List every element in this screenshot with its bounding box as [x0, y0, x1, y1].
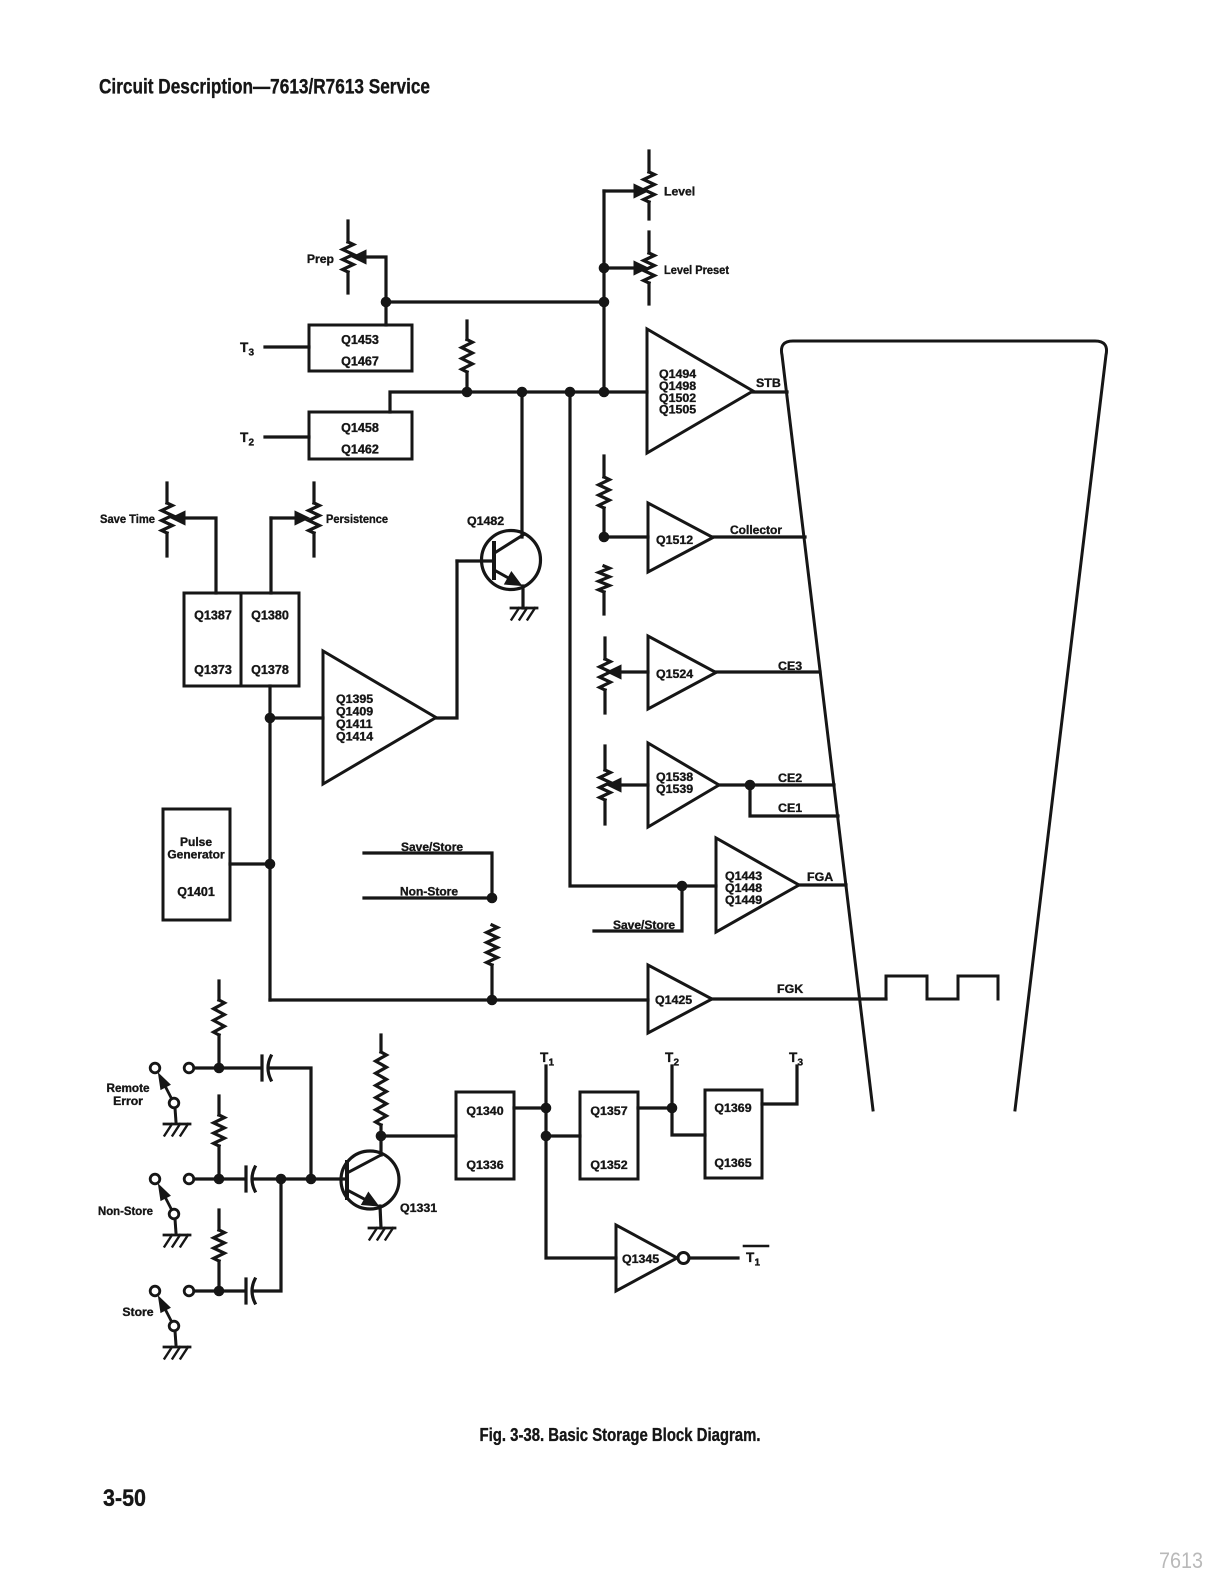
svg-text:Q1453: Q1453 — [341, 333, 379, 347]
svg-text:Circuit Description—7613/R7613: Circuit Description—7613/R7613 Service — [99, 76, 430, 99]
svg-text:Q1482: Q1482 — [467, 514, 504, 528]
svg-text:Generator: Generator — [167, 848, 225, 862]
svg-text:Q1369: Q1369 — [714, 1101, 751, 1115]
svg-text:Fig. 3-38. Basic Storage Bloc: Fig. 3-38. Basic Storage Block Diagram. — [480, 1425, 761, 1445]
svg-text:Q1365: Q1365 — [714, 1156, 751, 1170]
svg-text:Level: Level — [664, 185, 695, 199]
svg-text:3: 3 — [249, 348, 255, 359]
svg-text:Q1449: Q1449 — [725, 893, 762, 907]
svg-text:Non-Store: Non-Store — [98, 1204, 153, 1218]
svg-text:7613: 7613 — [1159, 1548, 1203, 1573]
svg-text:Q1467: Q1467 — [341, 355, 379, 369]
svg-text:Q1512: Q1512 — [656, 533, 693, 547]
svg-text:2: 2 — [674, 1058, 680, 1069]
svg-text:2: 2 — [249, 438, 255, 449]
svg-text:Q1524: Q1524 — [656, 667, 693, 681]
svg-text:Q1505: Q1505 — [659, 403, 696, 417]
svg-text:Q1336: Q1336 — [466, 1158, 503, 1172]
svg-text:CE2: CE2 — [778, 771, 802, 785]
svg-text:Q1357: Q1357 — [590, 1104, 627, 1118]
svg-text:Prep: Prep — [307, 252, 334, 266]
svg-text:Q1331: Q1331 — [400, 1201, 437, 1215]
svg-text:Q1458: Q1458 — [341, 421, 379, 435]
svg-text:Store: Store — [122, 1305, 153, 1319]
svg-text:Save Time: Save Time — [100, 512, 155, 526]
svg-text:Q1378: Q1378 — [251, 663, 289, 677]
svg-text:Collector: Collector — [730, 523, 782, 537]
svg-text:Q1539: Q1539 — [656, 782, 693, 796]
svg-text:Q1401: Q1401 — [177, 885, 215, 899]
svg-text:Q1414: Q1414 — [336, 730, 373, 744]
svg-text:1: 1 — [755, 1258, 761, 1269]
svg-text:CE3: CE3 — [778, 659, 802, 673]
svg-text:Save/Store: Save/Store — [613, 918, 675, 932]
svg-text:Q1425: Q1425 — [655, 993, 692, 1007]
svg-text:3: 3 — [798, 1058, 804, 1069]
svg-text:1: 1 — [549, 1058, 555, 1069]
svg-text:FGA: FGA — [807, 870, 833, 884]
svg-text:Q1462: Q1462 — [341, 443, 379, 457]
svg-text:Q1340: Q1340 — [466, 1104, 503, 1118]
svg-text:STB: STB — [756, 376, 781, 390]
svg-text:Level Preset: Level Preset — [664, 263, 729, 277]
svg-text:3-50: 3-50 — [103, 1485, 146, 1512]
svg-text:Q1380: Q1380 — [251, 609, 289, 623]
svg-text:Q1345: Q1345 — [622, 1252, 659, 1266]
svg-text:Error: Error — [113, 1094, 143, 1108]
svg-text:CE1: CE1 — [778, 801, 802, 815]
svg-text:FGK: FGK — [777, 982, 803, 996]
svg-text:Q1352: Q1352 — [590, 1158, 627, 1172]
svg-text:Q1387: Q1387 — [194, 609, 232, 623]
svg-text:Remote: Remote — [107, 1081, 150, 1095]
svg-text:Q1373: Q1373 — [194, 663, 232, 677]
svg-text:Non-Store: Non-Store — [400, 885, 458, 899]
svg-text:Save/Store: Save/Store — [401, 840, 463, 854]
svg-text:Persistence: Persistence — [326, 512, 388, 526]
